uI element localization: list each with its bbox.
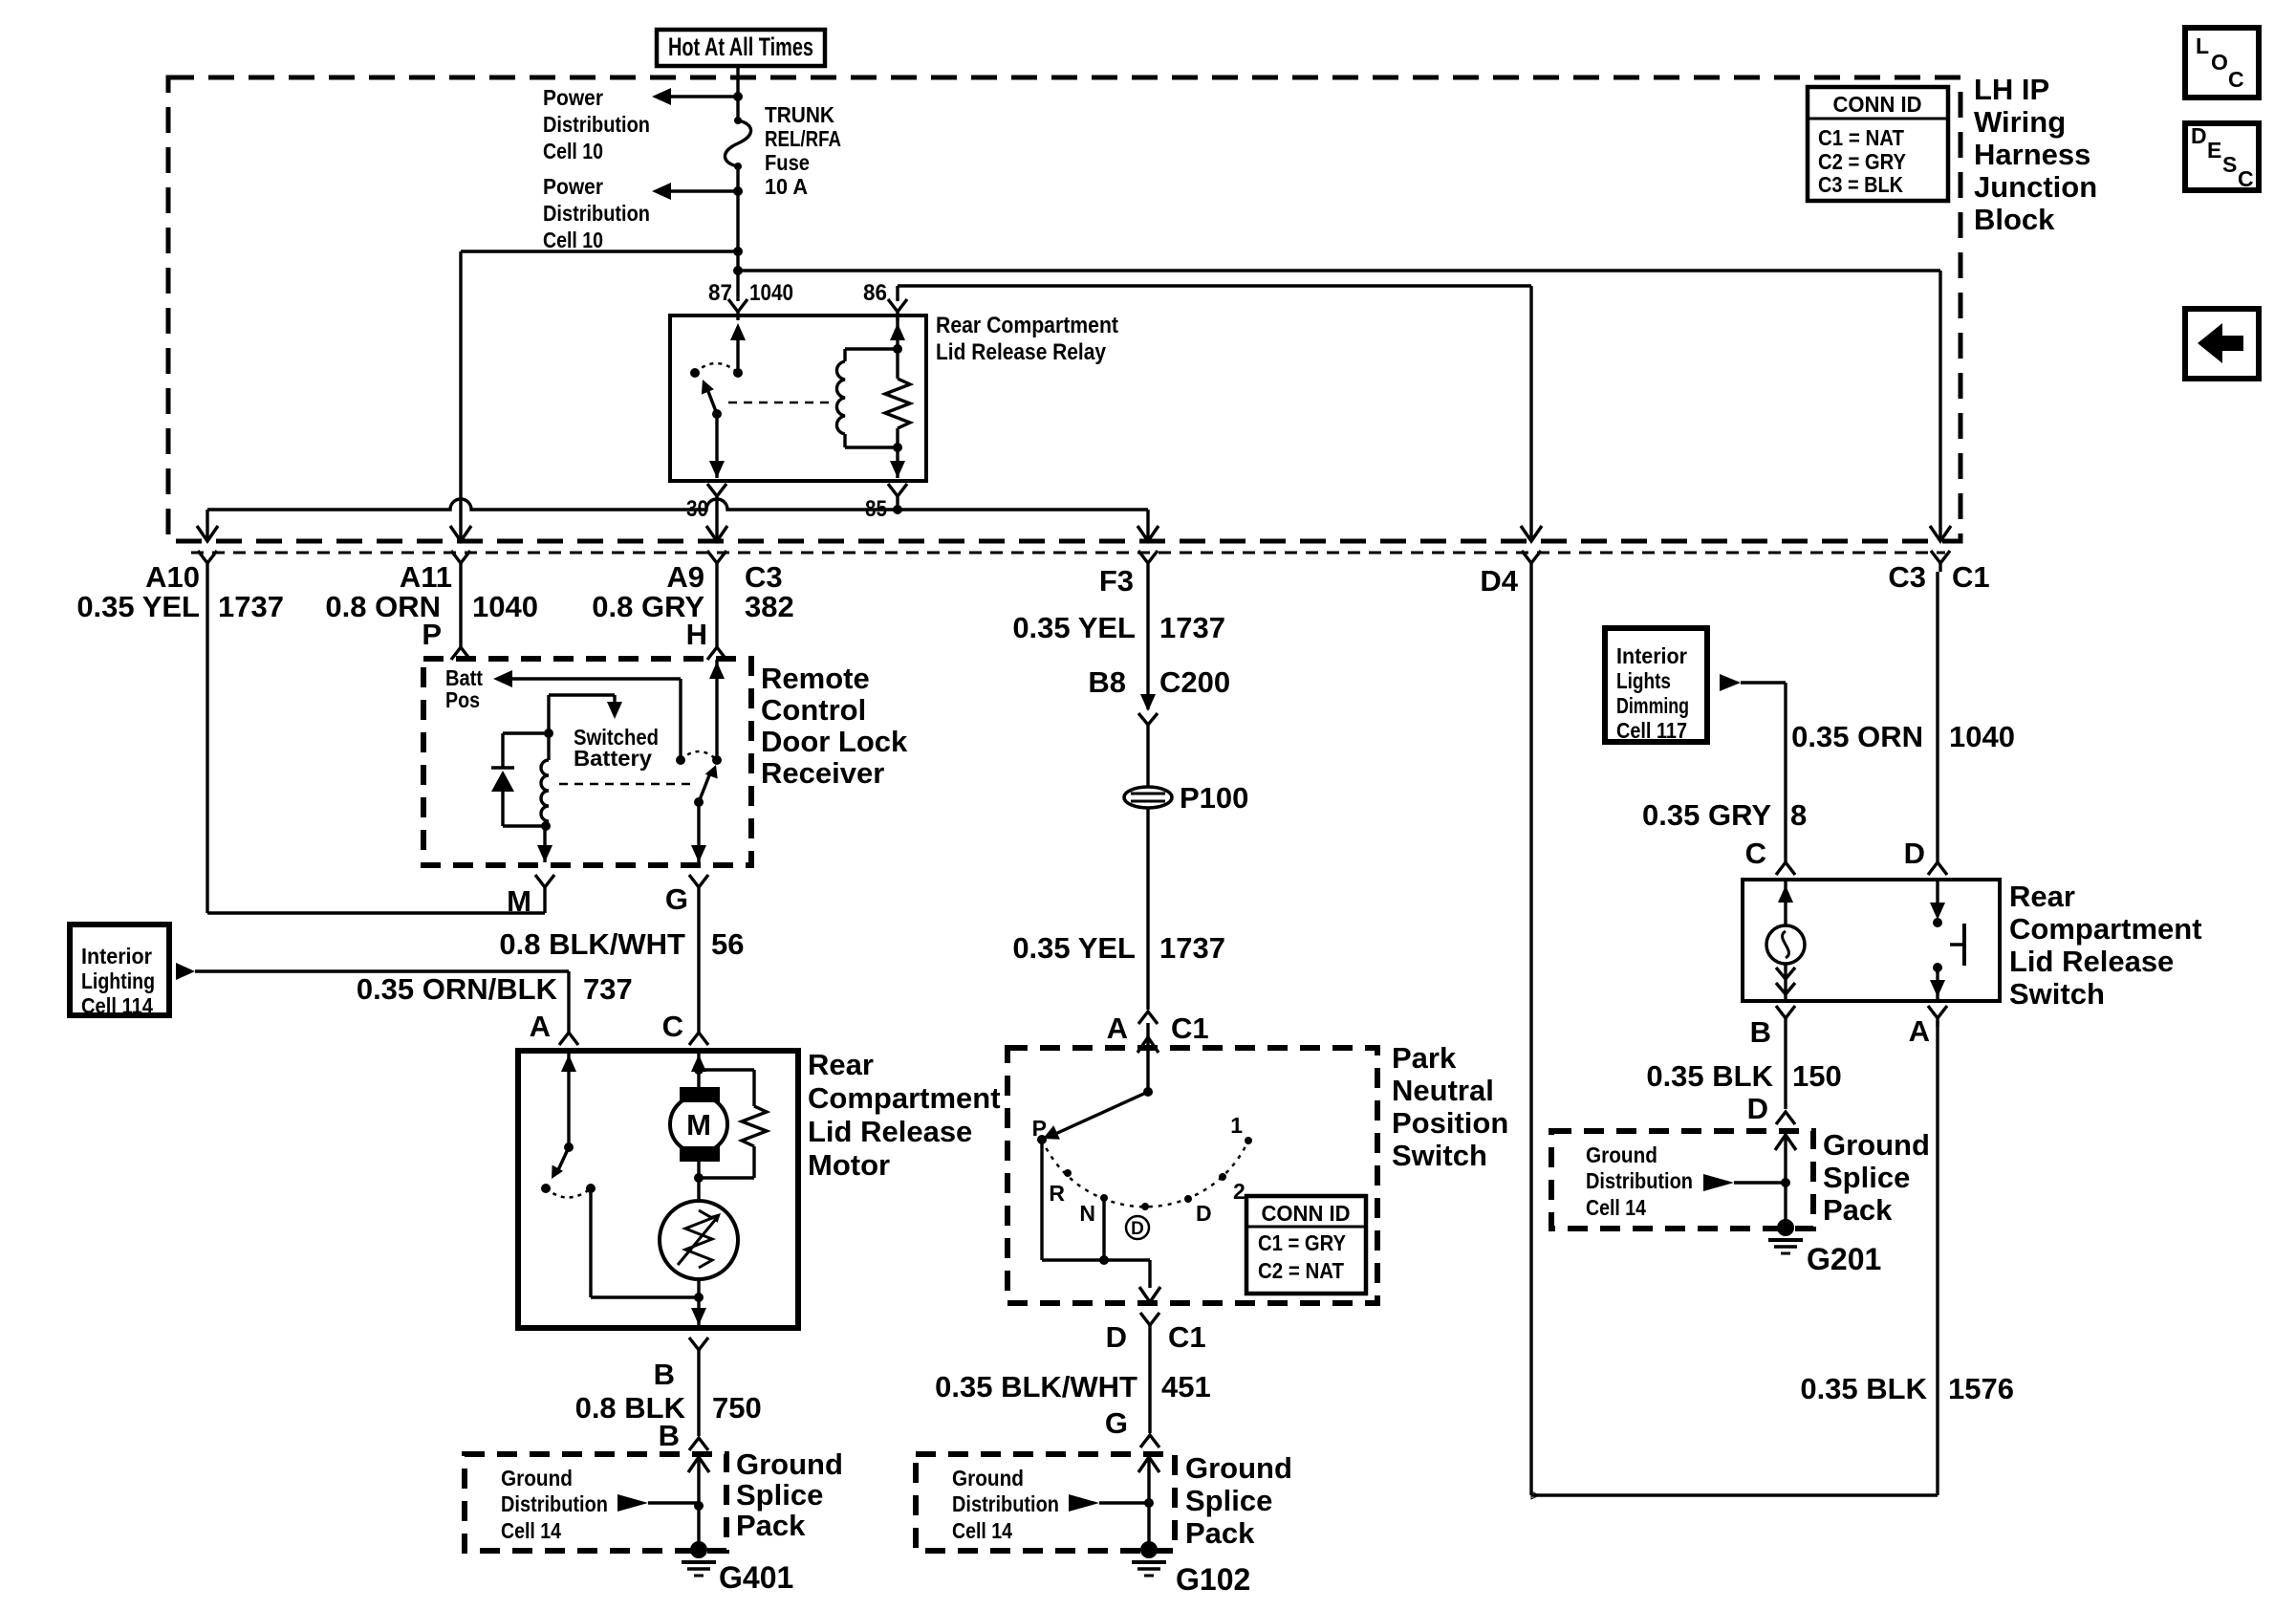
svg-text:0.35 ORN: 0.35 ORN — [1791, 720, 1923, 753]
svg-text:Cell 14: Cell 14 — [952, 1518, 1012, 1543]
connector A11 — [451, 551, 470, 572]
svg-text:Ground: Ground — [501, 1466, 573, 1490]
label A11 — [325, 560, 538, 651]
label pin 30 — [686, 496, 708, 522]
svg-text:Junction: Junction — [1974, 170, 2097, 204]
park contact R — [1049, 1169, 1072, 1206]
connector Y pin 86 — [888, 299, 907, 320]
node Hot At All Times box — [657, 30, 825, 66]
svg-text:Interior: Interior — [1616, 643, 1687, 668]
label B at splice — [659, 1419, 680, 1452]
wire relay 86 feed from D4 — [898, 286, 1531, 301]
svg-text:P: P — [1032, 1116, 1047, 1141]
svg-text:Ground: Ground — [1185, 1451, 1292, 1485]
relay switch common dot — [733, 368, 743, 378]
svg-text:1737: 1737 — [1159, 611, 1225, 644]
relay pin 87 internal wire with up arrow — [730, 323, 746, 373]
label Rear Compartment Lid Release Relay — [936, 313, 1118, 365]
svg-text:Lid Release: Lid Release — [808, 1115, 972, 1148]
svg-text:A: A — [530, 1010, 551, 1043]
label D4 — [1480, 564, 1518, 598]
park contact mid dot — [1141, 1203, 1149, 1210]
wire A10 drop — [197, 510, 218, 541]
wire below fuse — [736, 166, 739, 272]
motor M1 symbol — [670, 1087, 727, 1162]
svg-text:Park: Park — [1392, 1041, 1457, 1075]
svg-text:Ground: Ground — [952, 1466, 1024, 1490]
svg-text:Power: Power — [543, 174, 603, 199]
motor switch return wire — [591, 1188, 699, 1297]
wire 1737 F3 down — [1146, 572, 1149, 694]
connector Y pin 87 — [728, 299, 747, 320]
svg-text:C2 = NAT: C2 = NAT — [1258, 1258, 1344, 1283]
label 0.8 BLK/WHT 56 — [499, 927, 744, 961]
connector A10 — [198, 551, 217, 572]
label P100 — [1180, 781, 1248, 815]
svg-text:A: A — [1107, 1012, 1128, 1045]
svg-text:56: 56 — [711, 927, 744, 961]
svg-text:A11: A11 — [400, 560, 452, 594]
wire 750 to G401 — [575, 1359, 762, 1436]
wire 1737 M to A10 — [207, 572, 545, 913]
connector A9 C3 — [707, 551, 726, 572]
svg-text:R: R — [1049, 1181, 1065, 1206]
svg-text:O: O — [2211, 50, 2228, 75]
connector A switch — [1909, 1006, 1947, 1048]
label Batt Pos — [445, 665, 483, 712]
motor pin C internal wire with up arrow — [691, 1053, 706, 1087]
junction dot pin85-bus — [893, 505, 902, 514]
motor switch common dot — [564, 1142, 574, 1152]
label C D at switch — [1745, 837, 1925, 870]
connector D switch — [1928, 862, 1947, 875]
label Power Distribution Cell 10 (lower) — [543, 174, 650, 252]
svg-text:A9: A9 — [666, 560, 704, 594]
label F3 — [1012, 564, 1225, 644]
svg-text:D: D — [2191, 123, 2207, 148]
junction dot left branch — [733, 247, 743, 256]
svg-text:LH IP: LH IP — [1974, 73, 2049, 106]
svg-text:0.8 BLK/WHT: 0.8 BLK/WHT — [499, 927, 685, 961]
svg-text:0.35 YEL: 0.35 YEL — [76, 590, 200, 623]
svg-text:0.35 YEL: 0.35 YEL — [1012, 611, 1136, 644]
svg-text:Pack: Pack — [736, 1509, 806, 1542]
svg-text:N: N — [1079, 1201, 1095, 1226]
svg-text:D: D — [1196, 1201, 1212, 1226]
svg-text:Lid Release Relay: Lid Release Relay — [936, 339, 1107, 365]
svg-text:Pack: Pack — [1185, 1516, 1255, 1550]
wire 8 from dimming box to switch pin C — [1720, 674, 1786, 862]
svg-text:150: 150 — [1792, 1059, 1842, 1093]
svg-text:Cell 14: Cell 14 — [1586, 1195, 1646, 1220]
wire branch to A11 (horizontal) — [461, 250, 738, 252]
switch pushbutton — [1930, 881, 1964, 999]
node Interior Lights Dimming Cell 117 box — [1605, 628, 1707, 743]
svg-text:0.35 YEL: 0.35 YEL — [1012, 931, 1136, 965]
park contact N — [1079, 1194, 1108, 1226]
svg-text:Power: Power — [543, 85, 603, 110]
svg-text:Harness: Harness — [1974, 138, 2090, 171]
wire 150 to G201 — [1646, 1027, 1841, 1109]
svg-text:G401: G401 — [719, 1560, 793, 1595]
relay linkage dashed line — [728, 402, 834, 404]
svg-text:L: L — [2196, 33, 2209, 58]
svg-text:CONN ID: CONN ID — [1262, 1201, 1351, 1226]
svg-text:C: C — [2238, 166, 2254, 191]
label Ground Distribution Cell 14 (G102) — [952, 1466, 1059, 1543]
svg-text:1737: 1737 — [1159, 931, 1225, 965]
connector B switch — [1750, 1006, 1795, 1049]
svg-text:F3: F3 — [1099, 564, 1134, 598]
park CONN ID box — [1246, 1196, 1366, 1294]
label G102 — [1176, 1562, 1250, 1597]
svg-text:87: 87 — [708, 280, 732, 306]
G102 feed arrow — [1069, 1494, 1149, 1512]
G201 wire — [1775, 1131, 1796, 1223]
relay switch blade with arrow — [702, 380, 717, 414]
park contact 2 — [1219, 1173, 1245, 1204]
svg-text:Pos: Pos — [445, 687, 480, 712]
label Power Distribution Cell 10 (upper) — [543, 85, 650, 163]
relay coil junction top dot — [893, 344, 902, 354]
receiver pin H internal wire with up arrow — [709, 660, 725, 760]
wire 87 feed drop — [736, 272, 739, 301]
svg-text:C: C — [1745, 837, 1766, 870]
svg-text:Neutral: Neutral — [1392, 1074, 1494, 1107]
receiver coil top junction dot — [544, 729, 553, 738]
relay box Rear Compartment Lid Release Relay — [670, 315, 926, 481]
label D at G201 — [1747, 1092, 1768, 1125]
wire 737 from interior lighting to motor A — [176, 963, 578, 1045]
svg-text:Cell 10: Cell 10 — [543, 139, 603, 163]
svg-text:Pack: Pack — [1823, 1193, 1893, 1227]
wire A9 to receiver pin H — [707, 572, 726, 660]
DESC legend box — [2185, 123, 2259, 191]
connector into G201 — [1776, 1112, 1795, 1124]
receiver diode D1 — [491, 733, 549, 826]
svg-text:10 A: 10 A — [765, 174, 808, 199]
svg-text:M: M — [686, 1108, 711, 1142]
ground splice pack G102 dashed box — [916, 1454, 1175, 1551]
svg-text:0.35 BLK: 0.35 BLK — [1646, 1059, 1773, 1093]
svg-text:Distribution: Distribution — [952, 1491, 1059, 1516]
svg-text:S: S — [2222, 152, 2237, 177]
G401 wire — [688, 1454, 709, 1545]
svg-text:Rear: Rear — [808, 1048, 874, 1081]
svg-text:D: D — [1904, 837, 1925, 870]
wire power distribution arrow 2 — [652, 183, 738, 200]
inline connector C200 — [1138, 694, 1158, 725]
svg-text:H: H — [686, 618, 707, 651]
motor pin A internal wire with up arrow — [561, 1053, 576, 1147]
svg-text:0.35 BLK/WHT: 0.35 BLK/WHT — [935, 1370, 1137, 1403]
wire F3 drop — [1137, 510, 1159, 541]
svg-text:D: D — [1747, 1092, 1768, 1125]
park contact P — [1032, 1116, 1047, 1144]
label pin 87 — [708, 280, 732, 306]
svg-text:737: 737 — [583, 972, 633, 1006]
svg-text:Cell 117: Cell 117 — [1616, 718, 1687, 743]
receiver switched battery branch — [549, 695, 622, 733]
svg-text:8: 8 — [1790, 798, 1807, 832]
junction dot right branch — [733, 266, 743, 275]
label Ground Splice Pack (G102) — [1185, 1451, 1292, 1550]
receiver batt pos arrow — [493, 670, 681, 760]
label 0.35 GRY 8 — [1642, 798, 1807, 832]
svg-text:D4: D4 — [1480, 564, 1518, 598]
svg-text:Block: Block — [1974, 203, 2055, 236]
svg-text:Cell 14: Cell 14 — [501, 1518, 561, 1543]
relay resistor — [885, 315, 910, 447]
relay coil junction bottom dot — [893, 443, 902, 452]
G201 feed arrow — [1703, 1174, 1786, 1191]
wire D4 long drop — [1529, 572, 1532, 1495]
receiver switch blade — [694, 765, 718, 807]
motor switch blade — [552, 1147, 569, 1179]
motor bottom junction dot — [694, 1162, 704, 1201]
svg-text:Rear: Rear — [2009, 880, 2075, 913]
G102 wire — [1138, 1454, 1159, 1545]
svg-text:Splice: Splice — [1185, 1484, 1272, 1517]
wire bus from A10 to F3 with hops — [207, 499, 1148, 510]
junction block connector strip (fine dashed) — [191, 552, 1945, 555]
ground splice pack G201 dashed box — [1551, 1131, 1813, 1229]
svg-text:C: C — [2228, 67, 2244, 92]
svg-text:1737: 1737 — [218, 590, 284, 623]
svg-text:G201: G201 — [1807, 1242, 1881, 1276]
label Park Neutral Position Switch — [1392, 1041, 1508, 1172]
svg-text:1576: 1576 — [1948, 1372, 2014, 1405]
svg-text:P: P — [422, 618, 442, 651]
label A9 C3 — [592, 560, 793, 651]
connector into G102 — [1140, 1435, 1159, 1447]
wire 1040 C3C1 down to switch — [1936, 572, 1939, 862]
svg-text:1: 1 — [1230, 1113, 1243, 1138]
motor thermal variable resistor — [660, 1201, 738, 1279]
label Remote Control Door Lock Receiver — [761, 662, 908, 790]
label Rear Compartment Lid Release Switch — [2009, 880, 2202, 1011]
junction dot power dist 1 — [733, 92, 743, 101]
park switch wiper dot — [1143, 1087, 1153, 1097]
label A C1 at park switch — [1107, 1012, 1209, 1045]
svg-text:Distribution: Distribution — [501, 1491, 608, 1516]
label pin 86 — [863, 280, 887, 306]
receiver pin G internal wire with down arrow — [691, 802, 706, 862]
svg-text:B: B — [654, 1358, 675, 1391]
wire A11 drop — [450, 251, 471, 541]
wire bottom run and 1576 riser — [1531, 1021, 1938, 1499]
svg-text:750: 750 — [712, 1391, 762, 1425]
svg-text:CONN ID: CONN ID — [1833, 92, 1922, 117]
park circled D indicator — [1126, 1216, 1149, 1239]
receiver coil bottom junction dot — [541, 821, 551, 831]
label 0.35 ORN 1040 — [1791, 720, 2015, 753]
svg-text:Hot At All Times: Hot At All Times — [668, 33, 813, 61]
label pin 85 — [865, 496, 887, 522]
label 0.35 ORN/BLK 737 — [357, 972, 633, 1006]
wire 56 G to motor C — [689, 896, 708, 1045]
svg-text:C3 = BLK: C3 = BLK — [1818, 172, 1903, 197]
svg-text:C1 = NAT: C1 = NAT — [1818, 125, 1904, 150]
ground symbol G201 — [1768, 1219, 1803, 1253]
park contact D — [1184, 1195, 1212, 1226]
svg-text:Lights: Lights — [1616, 668, 1671, 693]
svg-text:0.35 GRY: 0.35 GRY — [1642, 798, 1771, 832]
back arrow legend box — [2185, 309, 2259, 379]
connector F3 — [1138, 551, 1158, 572]
svg-text:REL/RFA: REL/RFA — [765, 126, 841, 151]
label Ground Splice Pack (G201) — [1823, 1128, 1930, 1227]
svg-text:Control: Control — [761, 693, 866, 727]
svg-text:C3: C3 — [1888, 560, 1926, 594]
rear compartment lid release motor box — [518, 1051, 798, 1328]
svg-text:382: 382 — [745, 590, 794, 623]
svg-text:1040: 1040 — [1949, 720, 2015, 753]
svg-text:C: C — [662, 1010, 683, 1043]
label C3 C1 — [1888, 560, 1989, 594]
svg-text:D: D — [1106, 1320, 1127, 1354]
node Interior Lighting Cell 114 box — [70, 925, 169, 1018]
svg-text:Interior: Interior — [81, 944, 152, 968]
relay switch dashed arc — [695, 363, 738, 373]
LH IP wiring harness junction block dashed border — [168, 77, 1960, 541]
connector Y pin 85 — [888, 484, 907, 510]
park P-N tie wires — [1042, 1140, 1160, 1302]
park switch wiper arrow — [1043, 1092, 1148, 1140]
svg-text:86: 86 — [863, 280, 887, 306]
motor top junction dot — [694, 1065, 704, 1075]
svg-text:B: B — [659, 1419, 680, 1452]
svg-text:G: G — [1105, 1406, 1128, 1440]
wire to P100 — [1146, 725, 1149, 787]
receiver pin M internal wire with down arrow — [537, 826, 552, 862]
connector into G401 — [689, 1438, 708, 1450]
svg-text:Switch: Switch — [2009, 977, 2105, 1011]
svg-text:Distribution: Distribution — [1586, 1168, 1693, 1193]
fuse F1 TRUNK REL/RFA 10A symbol — [725, 117, 750, 170]
label 0.35 BLK 1576 — [1800, 1372, 2014, 1405]
label G at splice — [1105, 1406, 1128, 1440]
svg-text:TRUNK: TRUNK — [765, 102, 834, 127]
svg-text:C200: C200 — [1159, 665, 1230, 699]
svg-text:Compartment: Compartment — [808, 1081, 1001, 1115]
svg-text:C1: C1 — [1171, 1012, 1209, 1045]
svg-text:Ground: Ground — [1823, 1128, 1930, 1162]
label G201 — [1807, 1242, 1881, 1276]
svg-text:Lid Release: Lid Release — [2009, 945, 2174, 978]
connector C switch — [1776, 862, 1795, 875]
relay pin 85 internal wire with down arrow — [890, 447, 905, 478]
svg-text:Dimming: Dimming — [1616, 693, 1689, 718]
receiver linkage dashed line — [559, 783, 696, 786]
svg-text:0.35 BLK: 0.35 BLK — [1800, 1372, 1927, 1405]
svg-text:Battery: Battery — [574, 746, 652, 771]
label wire 1040 at 87 — [749, 280, 793, 306]
svg-text:0.35 ORN/BLK: 0.35 ORN/BLK — [357, 972, 558, 1006]
svg-text:Compartment: Compartment — [2009, 912, 2202, 946]
remote control door lock receiver dashed box — [423, 659, 751, 865]
ground symbol G102 — [1132, 1541, 1166, 1576]
wire 1040 to C3-C1 (horizontal) — [738, 269, 1940, 272]
svg-text:Switch: Switch — [1392, 1139, 1487, 1172]
svg-text:D: D — [1131, 1219, 1144, 1239]
label Ground Distribution Cell 14 (G401) — [501, 1466, 608, 1543]
label Ground Splice Pack (G401) — [736, 1447, 843, 1542]
svg-text:P100: P100 — [1180, 781, 1248, 815]
connector M — [507, 875, 554, 918]
svg-text:Cell 10: Cell 10 — [543, 228, 603, 252]
junction dot power dist 2 — [733, 186, 743, 196]
relay pin 30 internal wire with down arrow — [709, 414, 725, 478]
svg-text:2: 2 — [1233, 1179, 1245, 1204]
switch lamp with up arrow — [1766, 881, 1805, 999]
relay coil branch — [836, 349, 898, 447]
svg-text:Splice: Splice — [736, 1478, 823, 1512]
motor lower wire — [691, 1279, 706, 1328]
LOC legend box — [2185, 28, 2259, 98]
park switch contact arc dashed — [1042, 1140, 1248, 1207]
wire power distribution arrow 1 — [652, 88, 738, 105]
svg-text:Rear Compartment: Rear Compartment — [936, 313, 1118, 338]
relay switch pivot dot — [712, 409, 722, 419]
label G401 — [719, 1560, 793, 1595]
label 0.35 YEL 1737 (lower) — [1012, 931, 1225, 965]
ground splice pack G401 dashed box — [465, 1454, 726, 1551]
svg-text:C1: C1 — [1168, 1320, 1206, 1354]
wire 451 to G102 — [935, 1334, 1211, 1433]
label LH IP Wiring Harness Junction Block — [1974, 73, 2097, 236]
svg-text:C1: C1 — [1952, 560, 1990, 594]
wire D4 drop — [1521, 286, 1542, 541]
svg-text:Wiring: Wiring — [1974, 105, 2066, 139]
svg-text:A: A — [1909, 1014, 1930, 1048]
G401 feed arrow — [617, 1494, 699, 1512]
motor shunt resistor branch — [699, 1070, 767, 1178]
svg-text:G102: G102 — [1176, 1562, 1250, 1597]
svg-text:C2 = GRY: C2 = GRY — [1818, 149, 1906, 174]
svg-text:C3: C3 — [745, 560, 783, 594]
svg-text:B8: B8 — [1088, 665, 1126, 699]
relay switch left contact dot — [690, 368, 700, 378]
svg-text:Ground: Ground — [1586, 1142, 1657, 1167]
ground symbol G401 — [682, 1541, 716, 1576]
svg-text:C1 = GRY: C1 = GRY — [1258, 1230, 1346, 1255]
svg-text:Cell 114: Cell 114 — [81, 993, 153, 1018]
receiver switch contacts and dashed arc — [676, 751, 722, 765]
label B8 C200 — [1088, 665, 1230, 699]
label A10 — [76, 560, 284, 623]
connector D4 — [1522, 551, 1541, 572]
label C at motor — [662, 1010, 683, 1043]
svg-text:Lighting: Lighting — [81, 968, 155, 993]
label Switched Battery — [574, 725, 659, 771]
label Ground Distribution Cell 14 (G201) — [1586, 1142, 1693, 1220]
svg-text:Distribution: Distribution — [543, 112, 650, 137]
park contact 1 — [1230, 1113, 1252, 1144]
connector C3 C1 — [1931, 551, 1950, 572]
svg-text:Receiver: Receiver — [761, 756, 884, 790]
svg-text:E: E — [2207, 138, 2221, 163]
svg-text:Distribution: Distribution — [543, 201, 650, 226]
svg-text:Remote: Remote — [761, 662, 870, 695]
svg-text:451: 451 — [1161, 1370, 1211, 1403]
wire 1737 to park switch — [1146, 808, 1149, 1010]
svg-text:B: B — [1750, 1015, 1771, 1049]
connector G — [665, 875, 708, 916]
svg-text:Ground: Ground — [736, 1447, 843, 1481]
svg-text:Motor: Motor — [808, 1148, 890, 1182]
svg-text:G: G — [665, 882, 688, 916]
